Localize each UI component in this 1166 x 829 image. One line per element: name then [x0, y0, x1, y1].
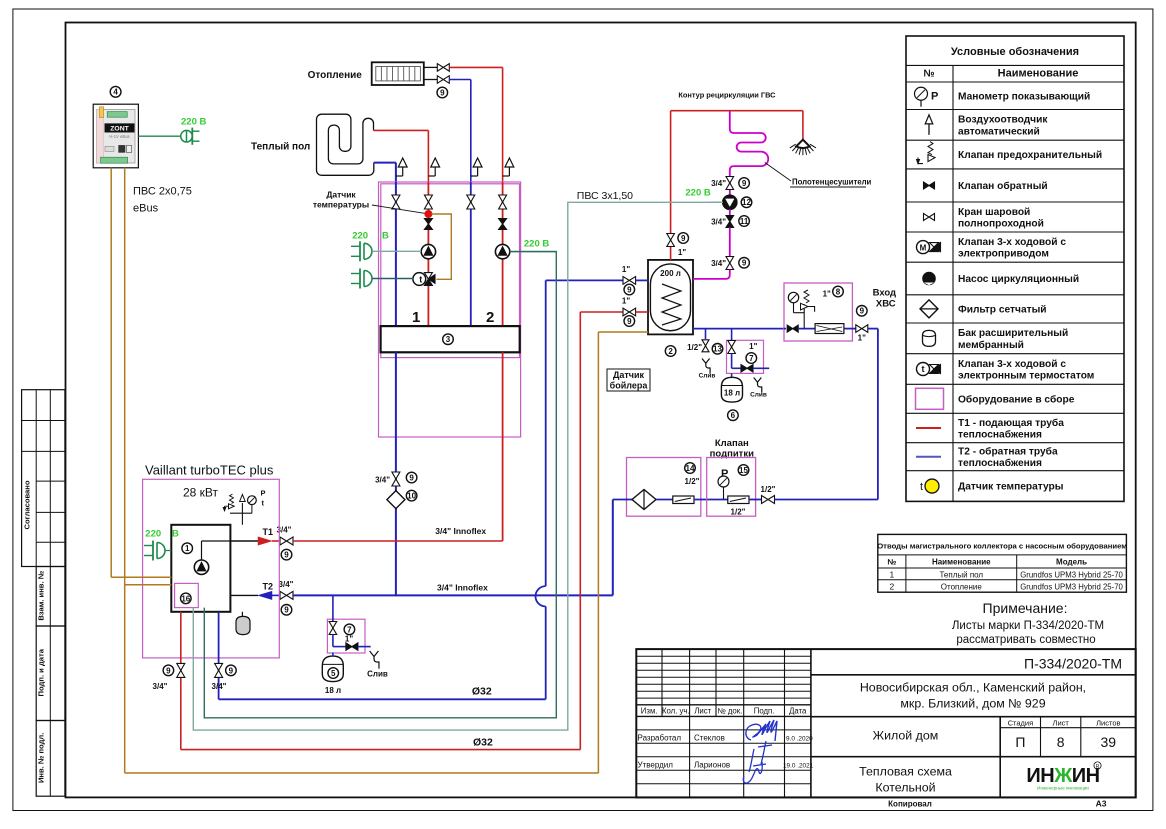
svg-text:Лист: Лист	[1053, 718, 1070, 727]
svg-text:Р: Р	[931, 90, 938, 102]
svg-text:t: t	[922, 364, 925, 374]
svg-text:39: 39	[1101, 734, 1117, 750]
svg-text:9: 9	[284, 606, 289, 615]
svg-text:1: 1	[185, 544, 190, 553]
svg-text:2: 2	[486, 309, 494, 326]
svg-text:4: 4	[113, 88, 118, 97]
svg-text:H-1V eBus: H-1V eBus	[109, 134, 129, 139]
svg-text:автоматический: автоматический	[958, 126, 1040, 137]
svg-text:Слив: Слив	[699, 373, 716, 380]
svg-text:Насос циркуляционный: Насос циркуляционный	[958, 274, 1079, 285]
svg-text:Стадия: Стадия	[1008, 718, 1034, 727]
svg-text:9: 9	[742, 259, 747, 268]
svg-text:16: 16	[181, 594, 190, 603]
svg-text:19.0 .2021: 19.0 .2021	[783, 762, 814, 769]
svg-text:9: 9	[229, 666, 234, 675]
svg-text:9: 9	[860, 307, 865, 316]
svg-text:9: 9	[681, 234, 686, 243]
svg-text:№: №	[923, 69, 934, 80]
svg-text:1": 1"	[622, 297, 630, 306]
svg-text:9: 9	[742, 179, 747, 188]
svg-text:9: 9	[409, 473, 414, 482]
svg-text:Стеклов: Стеклов	[694, 733, 725, 742]
svg-text:10: 10	[407, 491, 416, 500]
svg-text:6: 6	[731, 411, 736, 420]
svg-text:1/2": 1/2"	[731, 508, 746, 517]
svg-text:теплоснабжения: теплоснабжения	[958, 457, 1042, 469]
svg-text:Клапан обратный: Клапан обратный	[958, 180, 1048, 192]
svg-text:Клапан: Клапан	[715, 438, 749, 449]
svg-text:t: t	[920, 481, 923, 493]
svg-text:9: 9	[627, 317, 632, 326]
svg-text:Изм.: Изм.	[641, 707, 658, 716]
svg-text:1": 1"	[823, 290, 831, 299]
svg-text:14: 14	[686, 464, 695, 473]
svg-text:Клапан предохранительный: Клапан предохранительный	[958, 150, 1102, 161]
svg-text:мкр. Близкий, дом № 929: мкр. Близкий, дом № 929	[900, 697, 1045, 711]
svg-text:бойлера: бойлера	[610, 381, 649, 391]
svg-text:7: 7	[347, 625, 352, 634]
svg-text:Т2: Т2	[263, 581, 274, 591]
svg-text:P: P	[261, 489, 266, 498]
svg-text:1: 1	[889, 569, 894, 579]
svg-text:Тепловая схема: Тепловая схема	[859, 765, 952, 779]
svg-text:электроприводом: электроприводом	[958, 249, 1049, 260]
svg-text:ХВС: ХВС	[876, 298, 896, 309]
svg-text:15: 15	[739, 466, 748, 475]
svg-text:Наименование: Наименование	[998, 68, 1079, 80]
svg-text:18 л: 18 л	[325, 686, 341, 695]
svg-text:Теплый пол: Теплый пол	[251, 142, 310, 153]
svg-text:Grundfos UPM3 Hybrid 25-70: Grundfos UPM3 Hybrid 25-70	[1020, 570, 1123, 579]
svg-text:Примечание:: Примечание:	[983, 600, 1068, 616]
svg-text:№: №	[887, 558, 896, 567]
svg-text:Датчик: Датчик	[326, 190, 356, 200]
svg-text:220 В: 220 В	[685, 187, 710, 198]
svg-text:9.0 .2020: 9.0 .2020	[786, 735, 813, 742]
svg-text:температуры: температуры	[313, 200, 369, 210]
svg-text:18 л: 18 л	[724, 388, 740, 397]
svg-text:Grundfos UPM3 Hybrid 25-70: Grundfos UPM3 Hybrid 25-70	[1020, 583, 1123, 592]
svg-text:Ø32: Ø32	[473, 736, 493, 748]
svg-text:Разработал: Разработал	[638, 733, 682, 742]
svg-text:3: 3	[446, 335, 451, 344]
svg-text:Датчик: Датчик	[613, 370, 645, 380]
svg-text:3/4": 3/4"	[279, 580, 294, 589]
svg-text:13: 13	[713, 345, 722, 354]
svg-text:3/4": 3/4"	[711, 259, 726, 268]
svg-text:t: t	[419, 274, 422, 284]
svg-text:Подп.: Подп.	[754, 707, 775, 716]
svg-text:9: 9	[166, 666, 171, 675]
svg-text:8: 8	[836, 287, 841, 296]
svg-text:Теплый пол: Теплый пол	[939, 570, 983, 579]
svg-text:3/4": 3/4"	[153, 682, 168, 691]
svg-text:Т1: Т1	[263, 527, 274, 537]
svg-text:1": 1"	[858, 334, 866, 343]
svg-text:А3: А3	[1096, 799, 1107, 809]
svg-text:eBus: eBus	[133, 203, 159, 215]
svg-text:полнопроходной: полнопроходной	[958, 218, 1044, 229]
svg-text:1: 1	[412, 309, 420, 326]
svg-text:220: 220	[352, 231, 368, 242]
svg-text:электронным термостатом: электронным термостатом	[958, 370, 1094, 381]
svg-text:220: 220	[145, 529, 161, 540]
svg-text:Клапан 3-х ходовой с: Клапан 3-х ходовой с	[958, 237, 1066, 248]
svg-text:Котельной: Котельной	[875, 781, 935, 795]
svg-text:ПВС 3х1,50: ПВС 3х1,50	[577, 190, 633, 202]
svg-text:Копировал: Копировал	[888, 800, 932, 809]
svg-text:№ док.: № док.	[717, 707, 742, 716]
svg-text:3/4" Innoflex: 3/4" Innoflex	[437, 582, 488, 592]
svg-text:Т1 - подающая труба: Т1 - подающая труба	[958, 417, 1064, 429]
svg-text:220 В: 220 В	[181, 117, 206, 128]
svg-text:Ø32: Ø32	[472, 686, 492, 698]
svg-text:Вход: Вход	[873, 287, 897, 298]
svg-text:Датчик температуры: Датчик температуры	[958, 482, 1063, 493]
svg-text:3/4": 3/4"	[375, 476, 390, 485]
svg-text:8: 8	[1057, 734, 1065, 750]
svg-text:1/2": 1/2"	[761, 485, 776, 494]
svg-text:1": 1"	[678, 248, 686, 257]
svg-text:Ларионов: Ларионов	[694, 760, 730, 769]
svg-text:Отопление: Отопление	[941, 583, 983, 592]
svg-text:7: 7	[749, 354, 754, 363]
svg-text:теплоснабжения: теплоснабжения	[958, 428, 1042, 440]
svg-text:1": 1"	[345, 635, 353, 644]
svg-text:Контур рециркуляции ГВС: Контур рециркуляции ГВС	[678, 90, 776, 99]
svg-text:3/4": 3/4"	[212, 682, 227, 691]
svg-text:9: 9	[284, 550, 289, 559]
svg-text:Наименование: Наименование	[932, 558, 991, 567]
svg-text:Дата: Дата	[789, 707, 807, 716]
svg-text:П-334/2020-ТМ: П-334/2020-ТМ	[1024, 656, 1122, 672]
svg-text:Инженерные инновации: Инженерные инновации	[1037, 786, 1089, 791]
svg-text:В: В	[382, 231, 389, 242]
svg-text:Согласовано: Согласовано	[23, 480, 32, 529]
svg-text:1": 1"	[622, 265, 630, 274]
svg-text:Бак расширительный: Бак расширительный	[958, 328, 1068, 339]
svg-text:Листы марки П-334/2020-ТМ: Листы марки П-334/2020-ТМ	[952, 620, 1104, 632]
svg-text:28 кВт: 28 кВт	[183, 485, 219, 499]
svg-text:3/4": 3/4"	[711, 179, 726, 188]
svg-text:Клапан 3-х ходовой с: Клапан 3-х ходовой с	[958, 359, 1066, 370]
svg-text:Взам. инв. №: Взам. инв. №	[37, 571, 46, 621]
svg-text:9: 9	[627, 285, 632, 294]
svg-text:2: 2	[889, 582, 894, 592]
svg-text:рассматривать совместно: рассматривать совместно	[956, 634, 1095, 646]
svg-text:Воздухоотводчик: Воздухоотводчик	[958, 115, 1048, 126]
svg-text:Отопление: Отопление	[308, 70, 363, 81]
svg-text:ПВС 2х0,75: ПВС 2х0,75	[133, 186, 192, 198]
svg-text:Vaillant turboTEC plus: Vaillant turboTEC plus	[145, 463, 274, 478]
svg-text:2: 2	[668, 347, 673, 356]
svg-text:9: 9	[440, 88, 445, 97]
svg-text:R: R	[1096, 764, 1100, 770]
svg-text:12: 12	[742, 198, 751, 207]
svg-text:Фильтр сетчатый: Фильтр сетчатый	[958, 305, 1047, 316]
svg-text:3/4": 3/4"	[711, 218, 726, 227]
svg-text:М: М	[920, 243, 927, 252]
svg-text:3/4" Innoflex: 3/4" Innoflex	[435, 526, 486, 536]
svg-text:Модель: Модель	[1056, 558, 1087, 567]
svg-text:11: 11	[740, 217, 749, 226]
svg-text:Слив: Слив	[367, 670, 388, 679]
svg-text:Лист: Лист	[694, 707, 711, 716]
svg-text:Кран шаровой: Кран шаровой	[958, 207, 1030, 218]
svg-text:П: П	[1015, 734, 1025, 750]
svg-text:Подп. и дата: Подп. и дата	[37, 648, 46, 696]
svg-text:Новосибирская обл., Каменский: Новосибирская обл., Каменский район,	[860, 681, 1086, 695]
svg-text:220 В: 220 В	[524, 239, 549, 250]
svg-text:Жилой дом: Жилой дом	[873, 729, 939, 743]
svg-text:Условные обозначения: Условные обозначения	[951, 46, 1079, 58]
svg-text:ИНЖИН: ИНЖИН	[1026, 765, 1099, 787]
svg-text:В: В	[172, 529, 179, 540]
svg-text:Оборудование в сборе: Оборудование в сборе	[958, 393, 1075, 405]
svg-text:Слив: Слив	[750, 392, 767, 399]
svg-text:5: 5	[331, 669, 336, 678]
svg-text:Полотенцесушители: Полотенцесушители	[792, 178, 872, 187]
svg-text:Манометр показывающий: Манометр показывающий	[958, 91, 1090, 102]
svg-text:Утвердил: Утвердил	[638, 760, 674, 769]
svg-text:Отводы магистрального коллекто: Отводы магистрального коллектора с насос…	[877, 541, 1127, 550]
svg-text:1": 1"	[749, 342, 757, 351]
svg-text:1/2": 1/2"	[687, 343, 702, 352]
svg-text:200 л: 200 л	[660, 269, 681, 278]
svg-text:Инв. № подл.: Инв. № подл.	[37, 733, 46, 783]
svg-text:Листов: Листов	[1096, 718, 1120, 727]
svg-text:Кол. уч.: Кол. уч.	[662, 707, 690, 716]
svg-text:Т2 - обратная труба: Т2 - обратная труба	[958, 446, 1058, 458]
svg-text:мембранный: мембранный	[958, 339, 1024, 351]
svg-text:1/2": 1/2"	[685, 477, 700, 486]
svg-text:ZONT: ZONT	[110, 126, 129, 133]
